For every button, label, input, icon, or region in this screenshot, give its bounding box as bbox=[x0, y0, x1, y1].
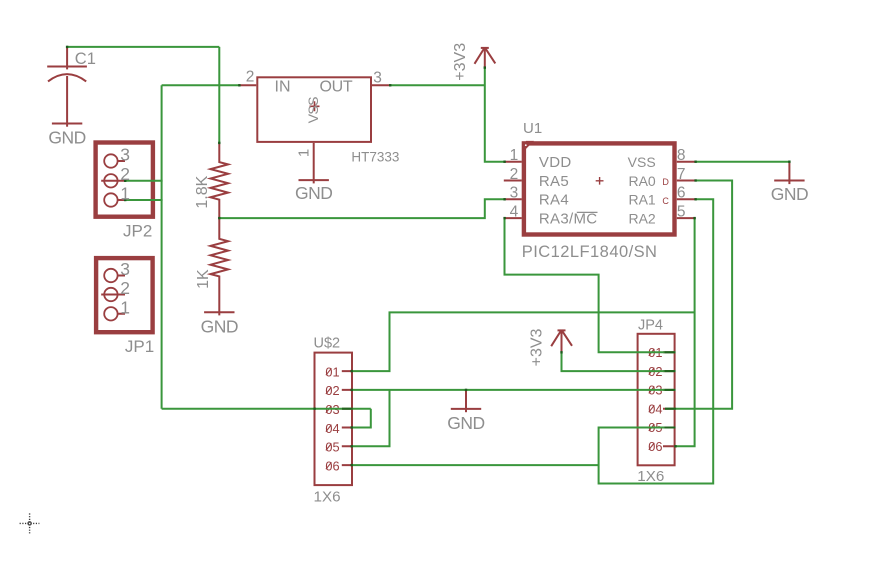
svg-text:1: 1 bbox=[120, 297, 130, 317]
pin 1 stub U1 bbox=[504, 161, 522, 163]
JP4 pin names bbox=[648, 345, 662, 454]
svg-text:1: 1 bbox=[120, 183, 130, 203]
ground under C1 bbox=[52, 123, 82, 125]
svg-text:RA2: RA2 bbox=[628, 210, 655, 226]
svg-text:3: 3 bbox=[120, 259, 130, 279]
svg-text:GND: GND bbox=[201, 316, 238, 336]
svg-text:06: 06 bbox=[325, 458, 339, 473]
supply +3V3 arrow near JP4 bbox=[551, 330, 572, 352]
wire U1 pin7 RA0 to JP4 pin04 bbox=[665, 181, 732, 409]
svg-text:1: 1 bbox=[510, 147, 519, 164]
pin 5 stub U1 bbox=[677, 217, 696, 219]
svg-text:2: 2 bbox=[120, 164, 130, 184]
svg-text:4: 4 bbox=[510, 203, 519, 220]
svg-text:RA1: RA1 bbox=[628, 192, 655, 208]
wire +3V3 down to U1 pin1 bbox=[485, 67, 504, 161]
pin 8 stub U1 bbox=[677, 161, 696, 163]
wire U$2 pin05 up bbox=[352, 390, 390, 446]
labels U1 right pin names bbox=[628, 154, 656, 226]
overline MC bbox=[577, 211, 598, 213]
U$2 pin names bbox=[325, 364, 339, 473]
wire resistor junction to U1 pin3 bbox=[219, 199, 504, 218]
notch corner U1 bbox=[522, 141, 534, 149]
U$2 pin stubs bbox=[342, 371, 352, 465]
labels U1 left pin names bbox=[539, 154, 597, 227]
origin cross regulator bbox=[310, 101, 320, 111]
ground near U$2 bbox=[451, 390, 481, 412]
wire U$2 pin01 to RA2 net bbox=[352, 312, 695, 371]
wire U1 pin4 to JP4 pin01 bbox=[505, 218, 676, 352]
resistor 1K bbox=[211, 218, 229, 315]
junction U$2 pin03 overlap bbox=[342, 408, 353, 410]
svg-text:U$2: U$2 bbox=[314, 336, 341, 352]
pin 3 stub U1 bbox=[504, 198, 522, 200]
ground right of U1 bbox=[774, 162, 804, 184]
labels JP2 pins bbox=[120, 145, 130, 204]
svg-text:PIC12LF1840/SN: PIC12LF1840/SN bbox=[522, 243, 658, 261]
svg-text:5: 5 bbox=[677, 203, 686, 220]
svg-text:+3V3: +3V3 bbox=[529, 328, 546, 366]
svg-text:1.8K: 1.8K bbox=[194, 175, 211, 208]
svg-text:JP4: JP4 bbox=[638, 318, 663, 334]
junction JP4 wire-over-stub overlaps bbox=[665, 352, 677, 427]
svg-text:RA5: RA5 bbox=[539, 173, 569, 190]
capacitor C1 bbox=[47, 47, 87, 127]
svg-text:VSS: VSS bbox=[305, 97, 321, 123]
svg-text:3: 3 bbox=[120, 145, 130, 165]
connector JP1 bbox=[96, 258, 153, 332]
wire U1 pin5 RA2 down to JP4 pin06 bbox=[676, 218, 695, 446]
ground under regulator bbox=[299, 179, 329, 181]
labels JP1 pins bbox=[120, 259, 130, 317]
svg-text:3: 3 bbox=[510, 185, 519, 202]
wire U$2 pin06 to RA1 net bbox=[352, 464, 599, 466]
svg-text:GND: GND bbox=[48, 127, 85, 147]
svg-text:VDD: VDD bbox=[539, 154, 572, 171]
svg-text:U1: U1 bbox=[523, 120, 542, 137]
connector JP2 bbox=[96, 143, 153, 217]
svg-text:IN: IN bbox=[275, 79, 291, 96]
wire U1 pin6 RA1 loop to JP4 pin05 bbox=[599, 199, 714, 483]
wire +3V3 to JP4 pin02 bbox=[562, 352, 676, 371]
svg-text:GND: GND bbox=[771, 184, 808, 204]
svg-text:05: 05 bbox=[325, 440, 339, 455]
svg-text:04: 04 bbox=[325, 421, 339, 436]
svg-text:GND: GND bbox=[295, 183, 332, 203]
wire JP2 pin1 bbox=[125, 199, 163, 201]
labels U1 pin numbers left bbox=[510, 147, 519, 220]
svg-text:GND: GND bbox=[447, 413, 484, 433]
wire regulator OUT to +3V3 bbox=[390, 84, 484, 86]
connector JP4 box bbox=[638, 334, 675, 466]
svg-text:RA0: RA0 bbox=[628, 173, 655, 189]
wire U$2 pin02 to JP4 pin03 bbox=[352, 389, 676, 391]
origin cross U1 bbox=[596, 177, 604, 185]
pin 4 stub U1 bbox=[504, 217, 522, 219]
svg-text:C: C bbox=[662, 196, 669, 206]
origin crosshair bbox=[20, 513, 40, 533]
wire JP2 pin2 bbox=[125, 180, 163, 182]
wire down to 1.8K bbox=[218, 47, 220, 143]
svg-text:OUT: OUT bbox=[320, 79, 353, 96]
JP4 pin stubs bbox=[663, 352, 675, 446]
wire trunk vertical bbox=[161, 85, 163, 408]
svg-text:2: 2 bbox=[510, 166, 519, 183]
ground under 1K bbox=[204, 311, 234, 313]
svg-text:6: 6 bbox=[677, 185, 686, 202]
labels U1 pin numbers right bbox=[677, 147, 686, 220]
pin 7 stub U1 bbox=[677, 180, 696, 182]
wire U1 pin8 to GND bbox=[696, 161, 790, 163]
svg-text:1: 1 bbox=[296, 149, 313, 157]
svg-text:2: 2 bbox=[120, 278, 130, 298]
svg-text:VSS: VSS bbox=[628, 154, 656, 170]
svg-text:8: 8 bbox=[677, 147, 686, 164]
svg-text:04: 04 bbox=[648, 401, 662, 416]
supply +3V3 arrow near U1 bbox=[475, 47, 496, 67]
pin 2 stub U1 bbox=[504, 180, 522, 182]
svg-text:JP1: JP1 bbox=[125, 337, 154, 356]
wire trunk to regulator IN bbox=[162, 84, 239, 86]
svg-text:7: 7 bbox=[677, 166, 686, 183]
svg-text:01: 01 bbox=[325, 364, 339, 379]
svg-text:1X6: 1X6 bbox=[637, 468, 664, 485]
svg-text:06: 06 bbox=[648, 439, 662, 454]
svg-text:HT7333: HT7333 bbox=[351, 149, 399, 164]
svg-text:JP2: JP2 bbox=[123, 222, 152, 241]
pin 6 stub U1 bbox=[677, 198, 696, 200]
svg-text:3: 3 bbox=[373, 69, 382, 86]
wire jumper 03-04 bbox=[352, 409, 371, 428]
resistor 1.8K bbox=[211, 143, 229, 218]
U$2 slashed zeros bbox=[326, 368, 332, 469]
svg-text:02: 02 bbox=[325, 383, 339, 398]
JP4 slashed zeros bbox=[649, 349, 655, 450]
wire C1 to top corner bbox=[67, 46, 219, 48]
IC U1 box bbox=[524, 143, 675, 234]
svg-text:2: 2 bbox=[246, 69, 255, 86]
connector U$2 box bbox=[315, 353, 353, 486]
svg-text:D: D bbox=[662, 177, 669, 187]
voltage regulator U$1 HT7333 box bbox=[239, 77, 391, 183]
svg-text:C1: C1 bbox=[75, 50, 96, 68]
wire trunk to U$2 pin 03 bbox=[162, 408, 371, 410]
svg-text:RA4: RA4 bbox=[539, 192, 569, 209]
svg-text:1X6: 1X6 bbox=[314, 489, 341, 506]
svg-text:1K: 1K bbox=[195, 269, 212, 289]
svg-text:+3V3: +3V3 bbox=[452, 43, 469, 81]
